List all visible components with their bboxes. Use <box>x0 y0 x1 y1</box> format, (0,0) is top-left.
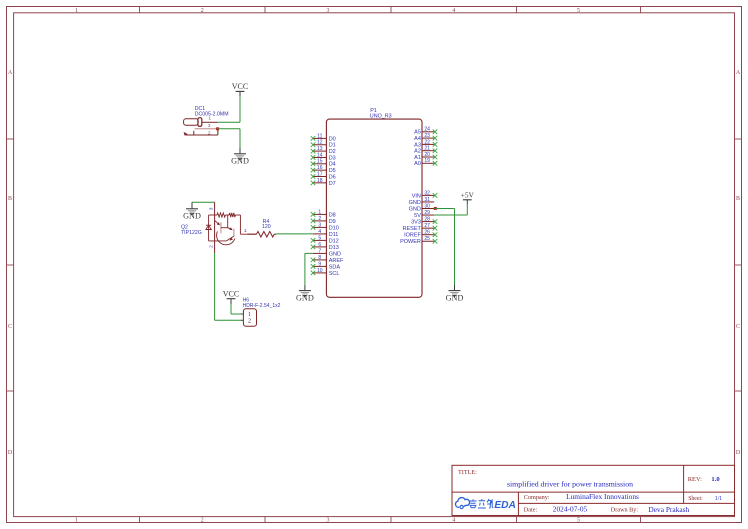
svg-text:16: 16 <box>317 165 323 171</box>
P1 pin 19 A0 (no-connect) <box>414 158 437 167</box>
svg-text:23: 23 <box>424 133 430 139</box>
svg-text:12: 12 <box>317 140 323 146</box>
ground GND (above Q2) <box>183 202 201 220</box>
svg-text:3V3: 3V3 <box>411 220 421 226</box>
svg-text:LuminaFlex Innovations: LuminaFlex Innovations <box>566 492 639 501</box>
svg-text:C: C <box>8 324 12 330</box>
P1 pin 12 D1 (no-connect) <box>311 140 336 149</box>
P1 pin 28 3V3 (no-connect) <box>411 217 437 226</box>
connector DC1 DC005-2.0MM barrel jack <box>184 106 229 136</box>
svg-text:3: 3 <box>208 207 213 210</box>
svg-text:B: B <box>8 196 12 202</box>
wire Q2 pin2 to H6 pin2 <box>215 253 242 320</box>
svg-text:POWER: POWER <box>400 239 421 245</box>
svg-text:REV:: REV: <box>688 476 702 483</box>
svg-text:D7: D7 <box>329 181 336 187</box>
svg-text:1: 1 <box>248 312 251 318</box>
svg-text:22: 22 <box>424 139 430 145</box>
svg-text:26: 26 <box>424 230 430 236</box>
svg-text:21: 21 <box>424 146 430 152</box>
svg-text:5: 5 <box>577 518 580 524</box>
svg-text:4: 4 <box>318 229 321 235</box>
svg-text:20: 20 <box>424 152 430 158</box>
svg-text:19: 19 <box>424 158 430 164</box>
svg-text:3: 3 <box>327 8 330 14</box>
JLC EDA logo <box>456 498 516 512</box>
svg-text:32: 32 <box>424 190 430 196</box>
svg-text:D6: D6 <box>329 174 336 180</box>
P1 pin 9 SDA (no-connect) <box>311 261 341 270</box>
junction at P1 pin30 GND <box>434 207 437 210</box>
P1 pin 24 A5 (no-connect) <box>414 127 437 136</box>
wire P1 GND pin7 to ground <box>305 253 313 284</box>
svg-text:18: 18 <box>317 178 323 184</box>
svg-text:GND: GND <box>183 212 201 221</box>
svg-text:GND: GND <box>409 206 421 212</box>
svg-text:4: 4 <box>452 8 455 14</box>
svg-text:VIN: VIN <box>412 193 421 199</box>
transistor Q2 TIP122G (darlington) <box>181 202 257 253</box>
title block <box>452 465 735 515</box>
svg-text:GND: GND <box>231 157 249 166</box>
P1 pin 17 D6 (no-connect) <box>311 171 336 180</box>
junction at DC1 pin3 <box>216 127 219 130</box>
svg-text:C: C <box>736 324 740 330</box>
resistor R4 120 <box>248 219 277 237</box>
svg-text:EDA: EDA <box>494 500 516 511</box>
svg-text:24: 24 <box>424 127 430 133</box>
svg-text:A3: A3 <box>414 142 421 148</box>
svg-text:3: 3 <box>327 518 330 524</box>
svg-text:GND: GND <box>409 200 421 206</box>
ground GND (below P1 right) <box>446 285 464 303</box>
svg-text:D12: D12 <box>329 238 339 244</box>
P1 pin 4 D11 <box>313 229 339 238</box>
svg-text:2024-07-05: 2024-07-05 <box>553 505 588 514</box>
svg-text:5: 5 <box>577 8 580 14</box>
svg-text:IOREF: IOREF <box>404 233 421 239</box>
svg-text:D11: D11 <box>329 232 339 238</box>
P1 pin 27 RESET (no-connect) <box>403 223 438 232</box>
connector H6 HDR-F-2.54_1x2 <box>241 298 281 327</box>
svg-text:A2: A2 <box>414 149 421 155</box>
svg-text:D1: D1 <box>329 143 336 149</box>
svg-text:D3: D3 <box>329 155 336 161</box>
H6 pin 2 <box>241 319 243 321</box>
svg-text:1: 1 <box>75 8 78 14</box>
svg-text:28: 28 <box>424 217 430 223</box>
svg-text:SCL: SCL <box>329 271 340 277</box>
svg-text:GND: GND <box>296 293 314 302</box>
P1 pin 5 D12 (no-connect) <box>311 235 339 244</box>
svg-text:D: D <box>8 450 13 456</box>
svg-text:4: 4 <box>452 518 455 524</box>
P1 pin 25 POWER (no-connect) <box>400 236 437 245</box>
svg-text:120: 120 <box>262 224 271 230</box>
svg-text:AREF: AREF <box>329 258 344 264</box>
svg-text:A: A <box>736 70 741 76</box>
wire GND to Q2 pin3 <box>192 201 215 203</box>
svg-text:VCC: VCC <box>232 82 248 91</box>
IC P1 UNO_R3 (Arduino Uno) <box>326 108 422 297</box>
svg-text:17: 17 <box>317 171 323 177</box>
DC1 pin 3 <box>195 128 218 130</box>
svg-text:DC005-2.0MM: DC005-2.0MM <box>195 111 229 117</box>
svg-text:5: 5 <box>318 235 321 241</box>
P1 pin 30 GND <box>409 203 435 212</box>
P1 pin 3 D10 (no-connect) <box>311 222 339 231</box>
svg-text:1/1: 1/1 <box>715 496 723 502</box>
power flag VCC (at H6) <box>223 290 239 305</box>
svg-text:1: 1 <box>318 209 321 215</box>
svg-text:6: 6 <box>318 242 321 248</box>
P1 pin 16 D5 (no-connect) <box>311 165 336 174</box>
svg-text:D10: D10 <box>329 225 339 231</box>
svg-text:2: 2 <box>318 216 321 222</box>
P1 pin 1 D8 (no-connect) <box>311 209 336 218</box>
P1 pin 7 GND <box>313 248 341 257</box>
svg-text:30: 30 <box>424 203 430 209</box>
svg-text:25: 25 <box>424 236 430 242</box>
svg-text:15: 15 <box>317 159 323 165</box>
svg-text:VCC: VCC <box>223 290 239 299</box>
svg-text:2: 2 <box>201 518 204 524</box>
svg-text:11: 11 <box>317 133 322 139</box>
svg-text:B: B <box>736 196 740 202</box>
svg-text:2: 2 <box>248 319 251 325</box>
svg-text:A4: A4 <box>414 136 421 142</box>
svg-text:31: 31 <box>424 197 430 203</box>
power flag VCC (top) <box>232 82 248 97</box>
wire P1 pin29 5V to +5V flag <box>434 204 467 215</box>
svg-text:A: A <box>8 70 13 76</box>
P1 pin 2 D9 (no-connect) <box>311 216 336 225</box>
P1 pin 21 A2 (no-connect) <box>414 146 437 155</box>
wire DC1 pin2 to pin3 junction <box>217 129 219 135</box>
svg-text:Company:: Company: <box>524 494 550 501</box>
svg-text:3: 3 <box>208 123 211 128</box>
svg-text:1: 1 <box>244 228 247 233</box>
svg-text:SDA: SDA <box>329 264 341 270</box>
svg-text:9: 9 <box>318 261 321 267</box>
svg-text:Sheet:: Sheet: <box>688 496 703 502</box>
P1 pin 20 A1 (no-connect) <box>414 152 437 161</box>
ground GND (below P1 left) <box>296 285 314 303</box>
wire P1 pin30 GND to ground <box>434 209 454 285</box>
P1 pin 13 D2 (no-connect) <box>311 146 336 155</box>
wire DC1 pin3 to GND <box>218 129 240 148</box>
svg-text:D9: D9 <box>329 219 336 225</box>
P1 pin 6 D13 (no-connect) <box>311 242 339 251</box>
svg-text:D5: D5 <box>329 168 336 174</box>
P1 pin 22 A3 (no-connect) <box>414 139 437 148</box>
svg-text:2: 2 <box>208 130 211 135</box>
svg-text:1.0: 1.0 <box>711 476 720 483</box>
svg-text:13: 13 <box>317 146 323 152</box>
P1 pin 32 VIN (no-connect) <box>412 190 438 199</box>
svg-text:simplified driver for power tr: simplified driver for power transmission <box>507 479 633 488</box>
svg-text:14: 14 <box>317 152 323 158</box>
P1 pin 31 GND <box>409 197 435 206</box>
svg-text:D: D <box>736 450 741 456</box>
svg-text:Deva Prakash: Deva Prakash <box>648 505 689 514</box>
svg-text:TIP122G: TIP122G <box>181 230 202 236</box>
svg-text:A0: A0 <box>414 161 421 167</box>
svg-text:8: 8 <box>318 255 321 261</box>
svg-text:A1: A1 <box>414 155 421 161</box>
svg-text:TITLE:: TITLE: <box>458 469 477 476</box>
svg-text:+5V: +5V <box>461 191 475 200</box>
P1 pin 26 IOREF (no-connect) <box>404 230 437 239</box>
svg-text:7: 7 <box>318 248 321 254</box>
svg-text:GND: GND <box>329 251 341 257</box>
P1 pin 15 D4 (no-connect) <box>311 159 336 168</box>
svg-text:D8: D8 <box>329 212 336 218</box>
H6 pin 1 <box>241 313 243 315</box>
DC1 pin 2 (sleeve/switch lever) <box>186 134 218 136</box>
P1 pin 11 D0 (no-connect) <box>311 133 336 142</box>
wire VCC to H6 pin1 <box>231 304 242 314</box>
P1 pin 8 AREF (no-connect) <box>311 255 344 264</box>
P1 pin 29 5V <box>414 210 434 219</box>
svg-text:A5: A5 <box>414 130 421 136</box>
DC1 pin 1 (tip) <box>202 121 218 123</box>
svg-text:Drawn By:: Drawn By: <box>611 506 639 513</box>
svg-text:1: 1 <box>209 116 212 121</box>
P1 pin 10 SCL (no-connect) <box>311 268 340 277</box>
svg-text:D13: D13 <box>329 245 339 251</box>
ground GND (below DC1) <box>231 148 249 166</box>
svg-text:2: 2 <box>208 245 213 248</box>
svg-text:D0: D0 <box>329 136 336 142</box>
svg-text:D4: D4 <box>329 162 336 168</box>
power flag +5V <box>461 191 475 204</box>
svg-text:GND: GND <box>446 293 464 302</box>
svg-text:1: 1 <box>75 518 78 524</box>
svg-text:5V: 5V <box>414 213 421 219</box>
P1 pin 23 A4 (no-connect) <box>414 133 437 142</box>
svg-text:Date:: Date: <box>524 506 538 513</box>
svg-text:29: 29 <box>424 210 430 216</box>
P1 pin 14 D3 (no-connect) <box>311 152 336 161</box>
svg-text:D2: D2 <box>329 149 336 155</box>
P1 pin 18 D7 (no-connect) <box>311 178 336 187</box>
svg-text:RESET: RESET <box>403 226 422 232</box>
svg-text:10: 10 <box>317 268 323 274</box>
svg-text:2: 2 <box>201 8 204 14</box>
svg-text:27: 27 <box>424 223 430 229</box>
svg-text:3: 3 <box>318 222 321 228</box>
wire VCC to DC1 pin1 <box>218 97 241 123</box>
wire R4 to P1 D11 <box>276 233 313 235</box>
